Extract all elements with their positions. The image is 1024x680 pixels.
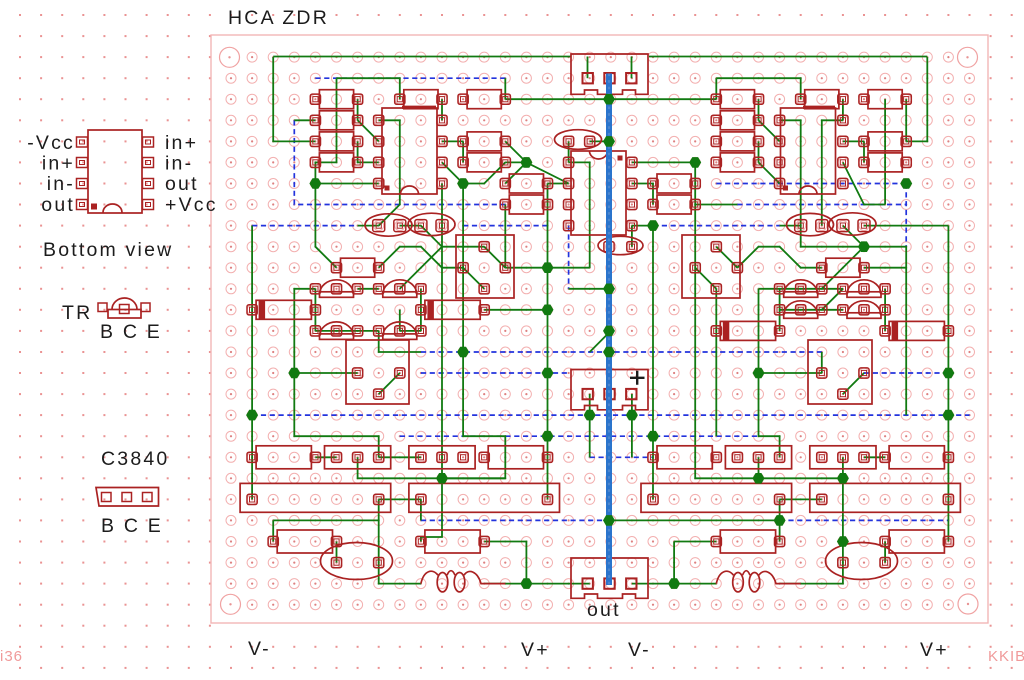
wire m22 feed bbox=[358, 457, 442, 478]
resistor R29 bbox=[720, 530, 775, 553]
transistor legend C3840 package bbox=[96, 488, 159, 507]
junction node (13,17) bbox=[288, 368, 300, 379]
wire net E n26 dashed vertical (dashed) bbox=[568, 226, 570, 289]
wire m25 jog down bbox=[484, 542, 526, 584]
wire square2 diagonal a bbox=[716, 247, 737, 268]
wire n12 drop to r-row bbox=[273, 57, 315, 141]
wire net G m17 dashed left (dashed) bbox=[421, 372, 569, 374]
wire n17 down + m27 bbox=[379, 499, 421, 583]
component X3 (square outline) bbox=[346, 340, 409, 404]
svg-text:out: out bbox=[587, 599, 621, 621]
wire P4 to m22 bbox=[758, 457, 760, 478]
wire diag from blue line bbox=[590, 331, 611, 352]
resistor R20 bbox=[868, 153, 902, 172]
wire net L m8 dashed right (dashed) bbox=[716, 183, 906, 185]
junction node (24,27) bbox=[520, 578, 532, 589]
wire r to ellipse right bbox=[884, 542, 886, 563]
wire m13 to blue line bbox=[569, 288, 611, 290]
wire P5 to m22 bbox=[842, 457, 844, 478]
wire diag + m9 jog bbox=[843, 162, 885, 204]
connector J2 (mid) bbox=[571, 370, 648, 410]
wire zig-zag m11/m12 bbox=[379, 247, 463, 268]
op-amp legend DIP-8 bottom view bbox=[77, 130, 154, 213]
wire long diagonal right bbox=[822, 247, 864, 289]
wire right r link a bbox=[758, 99, 760, 120]
wire IC2 pad to junction bbox=[632, 225, 653, 227]
component X4 (square outline) bbox=[808, 340, 872, 404]
wire m8 jog to r pad bbox=[463, 162, 505, 183]
wire net H m19 dashed long (dashed) bbox=[252, 414, 969, 416]
resistor R23 bbox=[256, 446, 311, 469]
wire m24 green left bbox=[273, 519, 379, 521]
connector block J5 bbox=[641, 483, 792, 512]
wire m5 stub bbox=[294, 119, 315, 121]
junction node (14,8) bbox=[309, 178, 321, 189]
svg-text:V+: V+ bbox=[920, 639, 949, 661]
wire diag pin7 to junction bbox=[442, 162, 463, 183]
wire n44 long vertical bbox=[947, 226, 949, 521]
svg-text:in-: in- bbox=[47, 173, 75, 195]
resistor R8 bbox=[467, 153, 501, 172]
transistor Q8 bbox=[383, 322, 417, 340]
wire dash-end to ellipse pad bbox=[358, 225, 379, 227]
wire n31 vertical bbox=[673, 542, 675, 584]
resistor R2 bbox=[319, 111, 353, 130]
wire T1-T2 link bbox=[358, 288, 379, 290]
wire right r link b bbox=[758, 141, 760, 162]
junction node (28,13) bbox=[603, 284, 615, 295]
diode/cap D4 bbox=[889, 321, 944, 340]
junction node (28,15) bbox=[603, 326, 615, 337]
resistor R11 bbox=[657, 174, 691, 193]
resistor R12 bbox=[657, 195, 691, 214]
wire m12 link right bbox=[864, 267, 906, 269]
wire R2 to IC1 pin bbox=[441, 99, 443, 120]
op-amp U2 (DIP-8) bbox=[571, 151, 626, 235]
mounting hole bbox=[221, 594, 241, 614]
transistor Q7 bbox=[320, 322, 354, 340]
wire net B n13/m9 dashed (dashed) bbox=[294, 120, 505, 204]
wire r column link bbox=[462, 141, 464, 162]
junction node (11,19) bbox=[246, 410, 258, 421]
wire IC4 internal n38 down bbox=[822, 120, 843, 225]
wire square1 diagonal a bbox=[484, 247, 505, 268]
wire n35 down + jog bbox=[759, 373, 780, 457]
diode/cap D3 bbox=[720, 321, 775, 340]
junction node (30,10) bbox=[647, 220, 659, 231]
resistor R24 bbox=[488, 446, 543, 469]
mounting hole bbox=[958, 47, 978, 67]
junction node (44,19) bbox=[942, 410, 954, 421]
wire connector1 right leg bbox=[631, 57, 633, 79]
wire IC2 pin to junction 32-7 bbox=[632, 161, 695, 163]
wire net D m10 dashed centre-left (dashed) bbox=[463, 225, 547, 227]
resistor R22 bbox=[826, 258, 860, 277]
junction node (31,27) bbox=[668, 578, 680, 589]
resistor R18 bbox=[868, 90, 902, 109]
wire m8 stub to IC2 pad bbox=[548, 183, 569, 185]
wire m22 run left bbox=[442, 477, 505, 479]
wire n20 jog to r pad bbox=[421, 478, 442, 541]
wire diag ellipse to junction bbox=[843, 226, 864, 247]
resistor R17 bbox=[805, 90, 839, 109]
svg-text:in+: in+ bbox=[42, 153, 75, 175]
op-amp U3 (DIP-8) bbox=[781, 108, 836, 194]
wire pin to r link bbox=[442, 140, 463, 142]
wire n15 through resistors bbox=[315, 78, 336, 183]
junction node (28,16) bbox=[603, 347, 615, 358]
transistor Q16 (flat pack) bbox=[810, 446, 876, 469]
wire IC4 internal n37 down bbox=[780, 120, 864, 246]
wire dash-end to ellipse right bbox=[780, 225, 801, 227]
wire diag to IC4 pin bbox=[759, 120, 780, 141]
wire diag T8 bbox=[822, 289, 843, 310]
svg-text:TR: TR bbox=[62, 302, 92, 324]
resistor R16 bbox=[720, 153, 754, 172]
wire connector1 left leg bbox=[587, 57, 589, 79]
wire ellipse to IC2 bbox=[568, 141, 570, 162]
wire n41 vertical lower bbox=[884, 289, 886, 331]
wire n21 to m22 bends bbox=[442, 352, 505, 478]
wire m12 run bbox=[505, 267, 589, 269]
wire n44 to r pad bbox=[947, 520, 949, 541]
connector J1 (top) bbox=[571, 54, 648, 94]
wire square4 diagonal bbox=[843, 373, 864, 394]
svg-text:B C E: B C E bbox=[100, 321, 162, 343]
resistor R7 bbox=[467, 132, 501, 151]
wire n14 down + diagonal bbox=[315, 184, 336, 268]
wire net F m16 dashed (dashed) bbox=[421, 351, 822, 353]
wire n13 vertical bbox=[294, 289, 315, 373]
svg-text:in+: in+ bbox=[165, 132, 198, 154]
wire m15 link bbox=[400, 330, 421, 332]
junction node (42,8) bbox=[900, 178, 912, 189]
wire r1-r2 link bbox=[357, 99, 359, 120]
resistor R4 bbox=[319, 153, 353, 172]
wire IC2 internal n27 down bbox=[569, 162, 590, 267]
wire net G m17 dashed right (dashed) bbox=[864, 372, 948, 374]
wire m3 green right bbox=[716, 78, 800, 99]
wire m21 link a bbox=[315, 456, 336, 458]
junction node (28,6) bbox=[603, 136, 615, 147]
wire m21 link b bbox=[379, 456, 421, 458]
component X1 (square outline) bbox=[456, 235, 514, 298]
junction node (35,22) bbox=[753, 473, 765, 484]
junction node (21,8) bbox=[457, 178, 469, 189]
wire pin to r link right bbox=[843, 140, 864, 142]
wire diag to IC4 pin8 bbox=[759, 162, 780, 183]
inductor L1 bbox=[421, 571, 505, 592]
wire diag junction to r pad bbox=[505, 162, 526, 183]
wire ellipse pad to blue line bbox=[590, 140, 611, 142]
resistor R27 bbox=[277, 530, 332, 553]
wire m27 run right a bbox=[632, 583, 674, 585]
transistor Q5 bbox=[320, 280, 354, 298]
wire square1 diagonal b bbox=[463, 268, 484, 289]
resistor R30 bbox=[889, 530, 944, 553]
wire n33 stub bbox=[715, 78, 717, 99]
junction node (28,24) bbox=[603, 515, 615, 526]
resistor R9 bbox=[509, 174, 543, 193]
wire diag junction to IC2 pad bbox=[526, 162, 568, 183]
svg-text:+Vcc: +Vcc bbox=[165, 194, 218, 216]
wire m23 link left bbox=[379, 498, 421, 500]
wire r to ellipse bbox=[336, 542, 338, 563]
transistor Q9 bbox=[784, 280, 818, 298]
resistor R21 bbox=[341, 258, 375, 277]
junction node (25,14) bbox=[542, 305, 554, 316]
junction node (24,7) bbox=[520, 157, 532, 168]
resistor R13 bbox=[720, 90, 754, 109]
wire m27 run left bbox=[484, 583, 590, 585]
wire r3-r4 link to pin7 bbox=[358, 141, 379, 162]
connector block J4 bbox=[409, 483, 560, 512]
resistor R5 bbox=[404, 90, 438, 109]
wire m13 run right bbox=[759, 288, 843, 290]
wire n23 vertical bbox=[504, 205, 506, 268]
wire n33 vertical bbox=[715, 289, 717, 436]
wire V rail m2 top right bbox=[649, 56, 927, 58]
svg-text:in-: in- bbox=[165, 153, 193, 175]
resistor R10 bbox=[509, 195, 543, 214]
svg-text:V-: V- bbox=[628, 639, 651, 661]
junction node (39,22) bbox=[837, 473, 849, 484]
svg-text:KKIB: KKIB bbox=[988, 648, 1024, 665]
wire n20 long vertical bbox=[441, 184, 443, 479]
svg-text:V-: V- bbox=[248, 638, 271, 660]
svg-text:out: out bbox=[165, 173, 199, 195]
transistor legend TR bbox=[98, 298, 150, 318]
diode/cap D2 bbox=[425, 300, 480, 319]
transistor Q-E1 (ellipse) bbox=[555, 130, 602, 150]
R17/IC4 overlap bar bbox=[803, 106, 835, 109]
wire R7 to IC4 pin bbox=[842, 99, 844, 120]
wire n36 vertical bbox=[779, 289, 781, 331]
wire T2-T4 link bbox=[420, 289, 422, 331]
junction node (28,4) bbox=[603, 94, 615, 105]
wire m23 link right bbox=[780, 498, 822, 500]
resistor R28 bbox=[425, 530, 480, 553]
junction node (35,17) bbox=[753, 368, 765, 379]
wire m27 to coil right bbox=[674, 583, 716, 585]
board outline bbox=[211, 35, 988, 623]
mounting hole bbox=[220, 47, 240, 67]
wire to dashed m16 bbox=[379, 331, 421, 352]
wire J2 right pad drop bbox=[631, 394, 633, 457]
wire IC1 internal n18 down bbox=[379, 120, 400, 225]
wire net I m20 dashed (dashed) bbox=[400, 435, 759, 437]
wire m10 to n44 bbox=[864, 225, 948, 227]
junction node (32,7) bbox=[689, 157, 701, 168]
wire m4 long rail bbox=[505, 98, 716, 100]
transistor Q10 bbox=[847, 280, 881, 298]
junction node (44,17) bbox=[942, 368, 954, 379]
wire J2 left pad drop bbox=[589, 394, 591, 457]
svg-text:B C E: B C E bbox=[101, 515, 163, 537]
wire n21 long vertical bbox=[462, 184, 464, 353]
wire m7 to junction bbox=[505, 161, 526, 163]
junction node (30,20) bbox=[647, 431, 659, 442]
resistor R26 bbox=[889, 446, 944, 469]
wire n23 stub bbox=[504, 78, 506, 99]
wire m21 link right bbox=[864, 456, 885, 458]
wire m25 link right bbox=[674, 541, 716, 543]
wire IC2 pad to ellipse bbox=[631, 226, 633, 247]
wire net C m10 dashed left (dashed) bbox=[252, 225, 358, 227]
wire m17 to square3 bbox=[294, 372, 357, 374]
inductor L2 bbox=[716, 571, 800, 592]
wire n30 long vertical bbox=[652, 226, 654, 500]
wire net J m21 dashed (dashed) bbox=[590, 456, 653, 458]
wire m8 to IC1 pin bbox=[315, 183, 378, 185]
wire diag + m11 to square pad bbox=[421, 226, 484, 247]
transistor Q11 bbox=[784, 301, 818, 319]
resistor R14 bbox=[720, 111, 754, 130]
wire m14 run right bbox=[780, 309, 843, 311]
thick blue centre trace bbox=[606, 74, 612, 586]
transistor Q6 bbox=[383, 280, 417, 298]
transistor Q17 (ellipse) bbox=[321, 543, 393, 580]
connector block J6 bbox=[810, 483, 961, 512]
wire diag to junction 24-7 bbox=[505, 141, 526, 162]
wire n13 down + m20 bbox=[294, 373, 378, 457]
wire net K m24 dashed right (dashed) bbox=[780, 519, 949, 521]
wire n32 vertical upper bbox=[694, 162, 696, 267]
wire m14 link bbox=[484, 309, 547, 311]
wire n38 stub bbox=[821, 352, 823, 373]
wire V rail m2 top left bbox=[273, 56, 571, 58]
wire n12 stub bbox=[272, 520, 274, 541]
wire m11 + n42 vertical bbox=[864, 247, 906, 415]
resistor R3 bbox=[319, 132, 353, 151]
junction node (27,19) bbox=[584, 410, 596, 421]
svg-text:Bottom view: Bottom view bbox=[43, 239, 173, 261]
wire m24 green right bbox=[611, 519, 780, 521]
resistor R1 bbox=[319, 90, 353, 109]
svg-text:i36: i36 bbox=[0, 648, 23, 665]
wire m9 green right bbox=[695, 204, 737, 206]
wire zig-zag right bbox=[737, 247, 821, 268]
R5/IC1 overlap bar bbox=[402, 106, 436, 109]
svg-text:C3840: C3840 bbox=[101, 448, 169, 470]
wire m15 run bbox=[315, 330, 378, 332]
resistor R25 bbox=[657, 446, 712, 469]
connector block J3 bbox=[240, 483, 391, 512]
wire n39 down + m27 bbox=[780, 478, 843, 583]
resistor R15 bbox=[720, 132, 754, 151]
junction node (25,17) bbox=[542, 368, 554, 379]
junction node (25,20) bbox=[542, 431, 554, 442]
resistor R6 bbox=[467, 90, 501, 109]
wire T1-T3 link bbox=[314, 289, 316, 331]
resistor R19 bbox=[868, 132, 902, 151]
wire square3 diagonal bbox=[379, 373, 400, 394]
wire r column link right bbox=[863, 141, 865, 162]
wire n41 through resistors bbox=[884, 99, 886, 204]
transistor Q13 (flat pack) bbox=[325, 446, 391, 469]
transistor Q12 bbox=[847, 301, 881, 319]
junction node (21,16) bbox=[457, 347, 469, 358]
wire net A m3 dashed (dashed) bbox=[315, 77, 505, 79]
junction node (25,12) bbox=[542, 262, 554, 273]
junction node (29,19) bbox=[626, 410, 638, 421]
wire ellipse pads link bbox=[400, 225, 421, 227]
svg-text:-Vcc: -Vcc bbox=[27, 132, 75, 154]
wire n42 r link bbox=[905, 99, 907, 141]
junction node (40,11) bbox=[858, 241, 870, 252]
svg-text:out: out bbox=[41, 194, 75, 216]
wire n35 vertical bbox=[758, 289, 760, 373]
wire m3 green over dash bbox=[337, 78, 400, 99]
wire net K m24 dashed left (dashed) bbox=[421, 519, 611, 521]
wire IC2 pin m8 jog bbox=[632, 184, 653, 205]
wire n43 drop to r-row bbox=[906, 57, 927, 141]
transistor Q-E1b (ellipse) bbox=[598, 236, 643, 254]
transistor Q18 (ellipse) bbox=[826, 543, 898, 580]
op-amp U1 (DIP-8) bbox=[382, 108, 437, 194]
wire square2 diagonal b bbox=[695, 268, 716, 289]
wire n11 green vertical bbox=[251, 226, 253, 500]
transistor Q15 (flat pack) bbox=[725, 446, 791, 469]
svg-text:V+: V+ bbox=[521, 639, 550, 661]
junction node (36,24) bbox=[774, 515, 786, 526]
wire n36 down bbox=[779, 499, 781, 541]
svg-text:HCA ZDR: HCA ZDR bbox=[228, 7, 329, 29]
wire long diagonal to T2 bbox=[400, 247, 442, 289]
component X2 (square outline) bbox=[682, 235, 740, 298]
connector J7 (bottom) bbox=[571, 558, 648, 598]
mounting hole bbox=[958, 594, 978, 614]
wire n18 stub bbox=[399, 310, 401, 331]
wire n19 stub bbox=[420, 499, 422, 520]
transistor pair Q3/Q4 (double ellipse) bbox=[787, 213, 877, 236]
wire diag to IC1 pin6 bbox=[358, 120, 379, 141]
transistor pair Q1/Q2 (double ellipse) bbox=[365, 213, 455, 236]
wire n32 vertical + m22 run bbox=[695, 268, 843, 479]
diode/cap D1 bbox=[256, 300, 311, 319]
junction node (20,22) bbox=[436, 473, 448, 484]
wire net L n42 dashed vertical (dashed) bbox=[905, 184, 907, 247]
wire net D m10 dashed centre-right (dashed) bbox=[653, 225, 780, 227]
wire n25 long vertical bbox=[547, 184, 549, 500]
junction node (39,25) bbox=[837, 536, 849, 547]
wire m17 to square4 bbox=[759, 372, 822, 374]
transistor Q14 (flat pack) bbox=[409, 446, 475, 469]
wire net L m9 dashed right (dashed) bbox=[737, 204, 906, 206]
label plus sign bbox=[630, 371, 645, 385]
